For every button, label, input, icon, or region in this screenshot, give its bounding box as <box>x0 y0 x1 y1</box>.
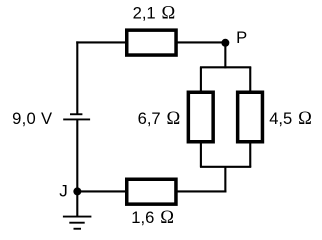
wire left vertical lower segment <box>76 119 78 216</box>
node J dot <box>73 187 81 195</box>
wire top horizontal left segment <box>76 41 126 43</box>
wire middle vertical down to bottom net <box>224 167 226 193</box>
svg-text:4,5 Ω: 4,5 Ω <box>269 109 312 129</box>
svg-text:2,1 Ω: 2,1 Ω <box>133 3 176 23</box>
resistor R4 box (1,6) <box>127 179 176 204</box>
wire parallel top junction horizontal <box>200 66 251 68</box>
ground bar 1 <box>63 216 92 218</box>
wire left branch lower vertical <box>200 143 202 167</box>
wire top horizontal right segment <box>176 41 225 43</box>
wire parallel bottom junction horizontal <box>200 166 251 168</box>
wire right branch lower vertical <box>249 143 251 167</box>
wire from node P down <box>224 42 226 68</box>
wire bottom horizontal left segment <box>77 190 126 192</box>
battery V1 long plate <box>63 118 90 120</box>
wire left vertical upper segment <box>76 41 78 113</box>
wire left branch upper vertical <box>200 67 202 91</box>
ground bar 2 <box>69 222 84 224</box>
svg-text:J: J <box>59 182 67 201</box>
resistor R1 box <box>127 30 176 55</box>
svg-text:P: P <box>236 28 247 47</box>
svg-text:1,6 Ω: 1,6 Ω <box>131 208 174 228</box>
resistor R2 box (6,7) <box>188 92 213 142</box>
ground bar 3 <box>74 228 82 230</box>
svg-text:9,0 V: 9,0 V <box>12 109 52 128</box>
wire bottom horizontal right segment <box>177 190 227 192</box>
svg-text:6,7 Ω: 6,7 Ω <box>138 109 181 129</box>
node P dot <box>221 39 229 47</box>
resistor R3 box (4,5) <box>238 92 263 142</box>
wire right branch upper vertical <box>249 67 251 91</box>
battery V1 short plate <box>70 113 82 115</box>
